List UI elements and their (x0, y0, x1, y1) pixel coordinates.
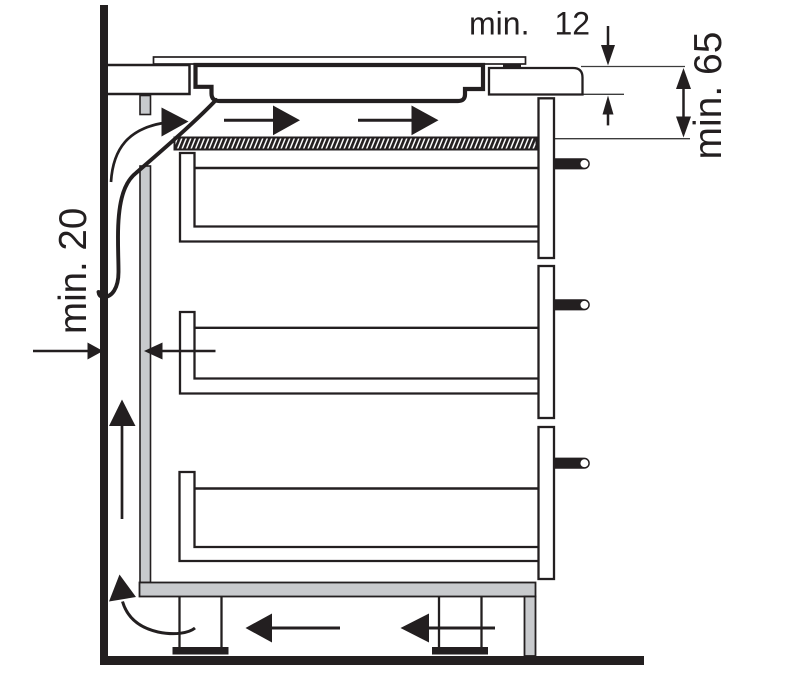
airflow curved arrow bottom-left (109, 575, 195, 634)
min20 dim arrow toward wall (33, 343, 103, 360)
min12 down arrow (601, 26, 615, 66)
airflow arrow top A (224, 106, 300, 136)
airflow arrow top B (358, 106, 439, 136)
drawer 3 rim line (195, 487, 538, 489)
hob clamp right (503, 63, 521, 70)
hob body tub (196, 65, 484, 101)
dim line shelf (min65 lower reference) (551, 138, 690, 140)
drawer front panel 2 (539, 266, 555, 418)
airflow arrow bottom D (401, 614, 496, 643)
floor (100, 656, 644, 665)
drawer 2 rim line (195, 327, 538, 329)
mains cable curve (99, 100, 217, 297)
svg-text:min. 20: min. 20 (52, 208, 95, 334)
hatch bar (cabinet top rail) (175, 138, 537, 150)
svg-text:12: 12 (555, 6, 591, 42)
handle 2 (553, 299, 590, 310)
min20 dim arrow toward cabinet (144, 343, 216, 360)
handle 3 (553, 458, 590, 469)
dim line top (min12 upper reference) (581, 66, 685, 68)
drawer front panel 1 (539, 98, 555, 258)
worktop right (489, 68, 583, 95)
handle 1 (553, 158, 590, 169)
dim line worktop bottom (min12 lower reference) (556, 93, 624, 95)
svg-text:min. 65: min. 65 (687, 32, 730, 160)
worktop left (107, 65, 190, 94)
leg A lines (178, 597, 180, 648)
leg A foot plate (173, 647, 229, 655)
plinth gray bar (140, 583, 536, 597)
svg-text:min.: min. (469, 6, 529, 42)
airflow up arrow in wall gap (109, 400, 136, 520)
drawer 1 box (180, 153, 542, 242)
airflow arrow bottom C (246, 614, 341, 643)
plinth gray right column (525, 597, 536, 657)
leg B lines (438, 597, 440, 648)
hob glass panel (154, 57, 526, 64)
airflow arrow top-left curved (111, 108, 189, 183)
cabinet gray side panel (140, 166, 151, 583)
min65 double arrow (676, 68, 691, 138)
leg B foot plate (432, 647, 488, 655)
drawer 1 rim line (195, 167, 538, 169)
drawer front panel 3 (539, 427, 555, 579)
wall batten gray tab (140, 96, 151, 115)
drawer 2 box (180, 312, 542, 394)
drawer 3 box (180, 472, 543, 561)
wall (100, 5, 108, 665)
min12 up arrow (603, 96, 614, 126)
